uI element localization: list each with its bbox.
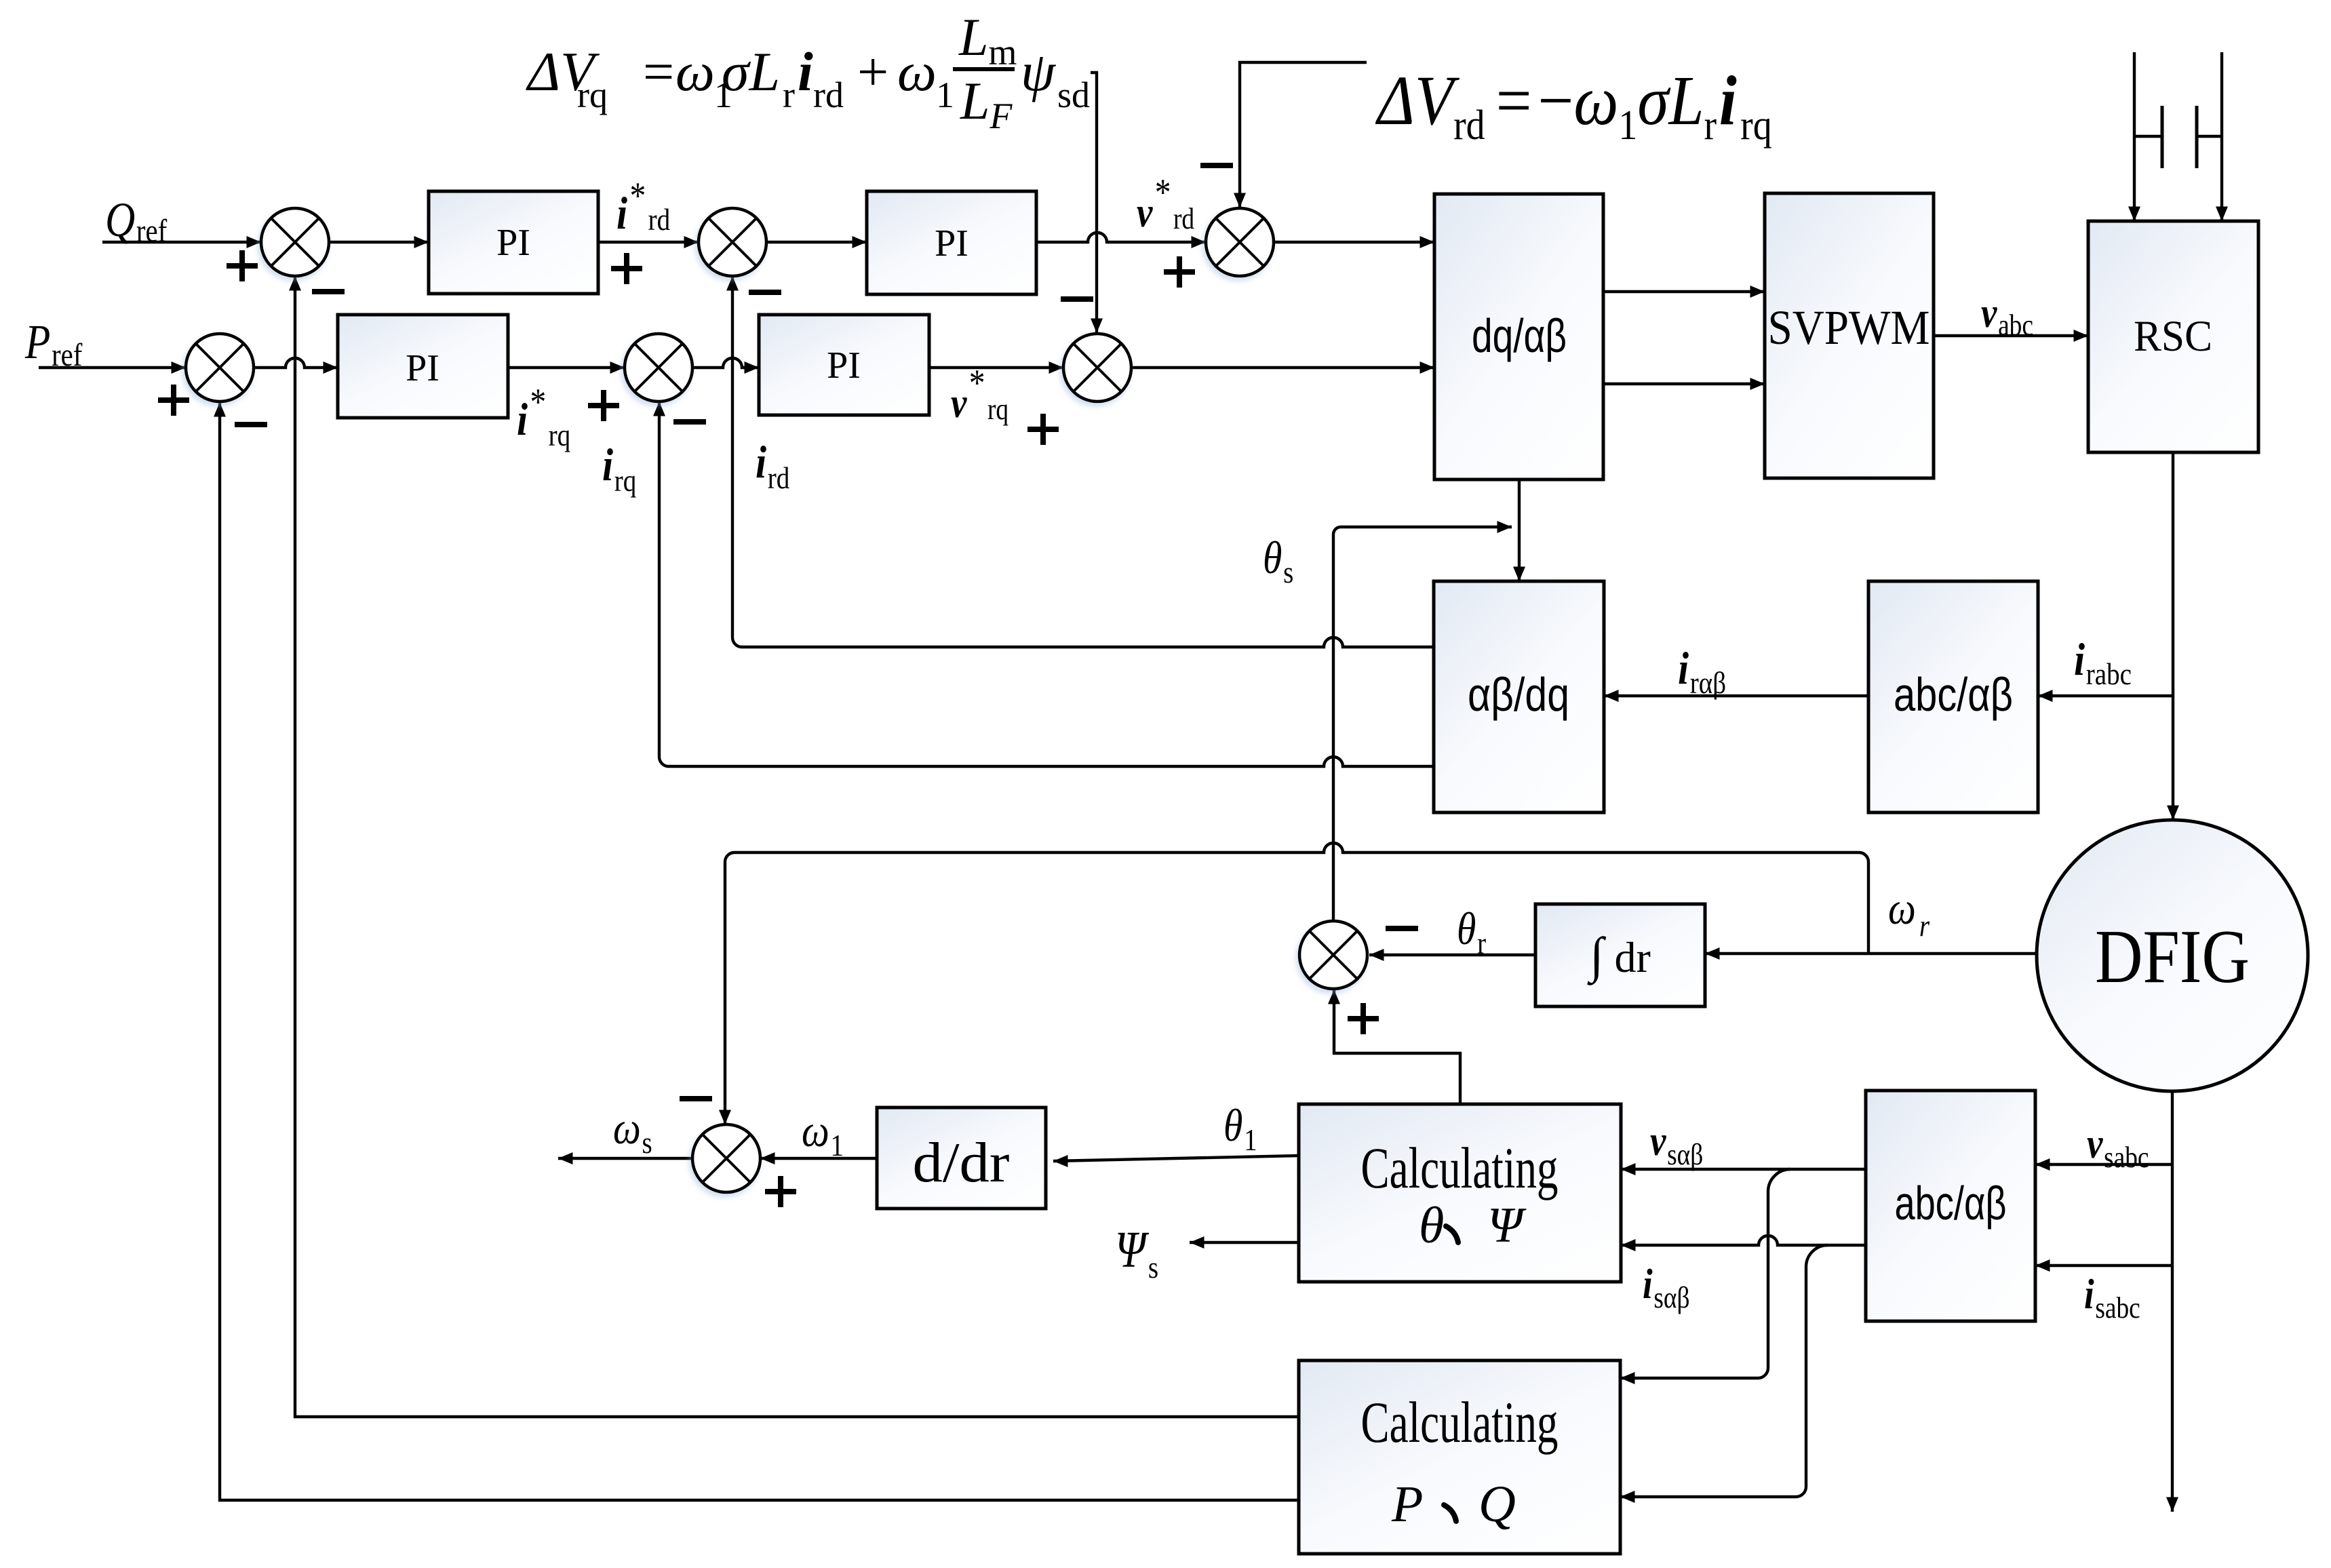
svg-text:PI: PI: [827, 345, 861, 387]
svg-text:d/dr: d/dr: [913, 1131, 1010, 1194]
svg-text:rq: rq: [577, 75, 608, 115]
svg-text:sd: sd: [1057, 75, 1090, 115]
svg-text:DFIG: DFIG: [2095, 915, 2250, 999]
svg-text:1: 1: [936, 75, 954, 115]
svg-text:αβ/dq: αβ/dq: [1468, 668, 1569, 721]
svg-text:abc/αβ: abc/αβ: [1895, 1177, 2007, 1230]
svg-text:SVPWM: SVPWM: [1768, 300, 1930, 355]
svg-text:rd: rd: [813, 75, 844, 115]
svg-text:PI: PI: [496, 222, 530, 264]
svg-text:σL: σL: [722, 41, 780, 102]
svg-text:i: i: [798, 41, 813, 102]
svg-text:dq/αβ: dq/αβ: [1472, 309, 1567, 362]
svg-text:=: =: [643, 41, 674, 102]
svg-text:PI: PI: [935, 222, 968, 264]
svg-text:Calculating: Calculating: [1361, 1135, 1559, 1200]
svg-text:Calculating: Calculating: [1361, 1390, 1559, 1455]
svg-text:r: r: [783, 75, 795, 115]
svg-text:ω: ω: [675, 41, 715, 102]
svg-text:abc/αβ: abc/αβ: [1894, 668, 2013, 721]
svg-text:θ: θ: [1419, 1197, 1444, 1254]
svg-text:PI: PI: [406, 347, 439, 389]
svg-text:∫ dr: ∫ dr: [1587, 928, 1651, 985]
svg-text:Ψ: Ψ: [1487, 1198, 1527, 1253]
svg-text:RSC: RSC: [2134, 312, 2212, 361]
svg-text:P: P: [1391, 1476, 1423, 1533]
svg-text:ψ: ψ: [1021, 41, 1057, 102]
svg-text:+: +: [857, 41, 888, 102]
svg-text:ω: ω: [897, 41, 937, 102]
svg-text:Q: Q: [1478, 1476, 1516, 1533]
